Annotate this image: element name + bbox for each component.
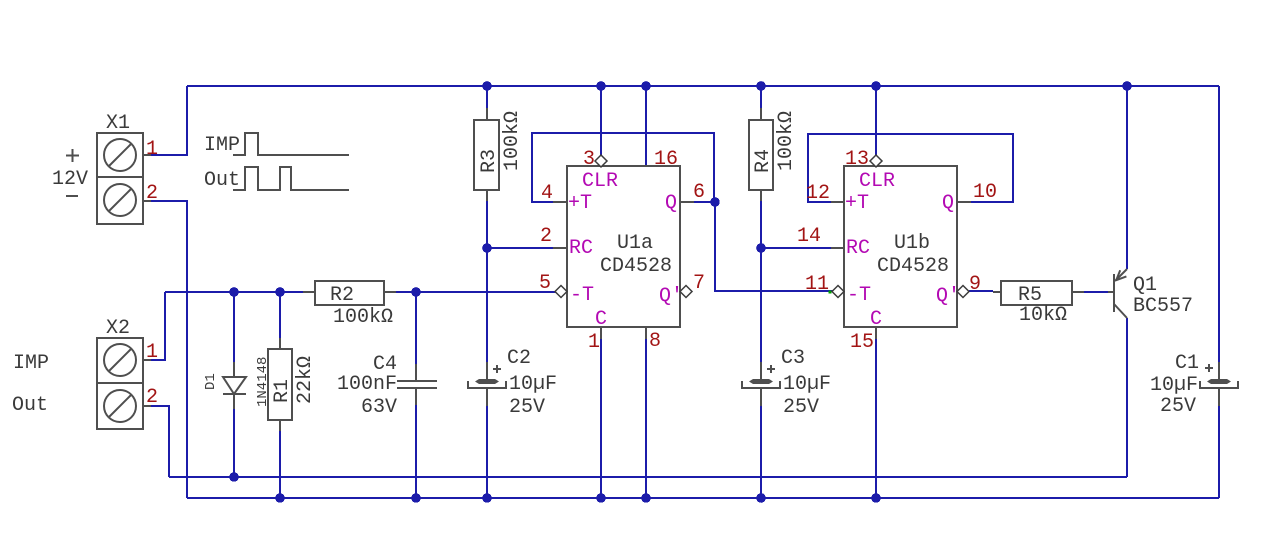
wire U1a pin8 to ground rail — [645, 339, 647, 498]
svg-text:R4: R4 — [752, 149, 775, 173]
svg-text:15: 15 — [850, 331, 874, 354]
wire X1 pin1 to +12V rail riser — [150, 86, 187, 155]
svg-text:C2: C2 — [507, 347, 531, 370]
svg-text:2: 2 — [146, 386, 158, 409]
wire RC node to U1a RC pin2 — [487, 247, 553, 249]
wire U1b +T pin12 feedback loop to Q pin10 — [808, 134, 1013, 202]
wire +12V rail to U1a pin16 — [645, 86, 647, 166]
junction Out rail / D1 — [229, 472, 239, 482]
pin 11 diamond — [832, 286, 844, 298]
junction ground rail / U1b pin15 — [871, 493, 881, 503]
transistor Q1 BC557 PNP — [1108, 269, 1193, 318]
junction ground rail / C3 — [756, 493, 766, 503]
resistor R3 100k — [474, 108, 524, 201]
svg-text:10µF: 10µF — [509, 373, 557, 396]
svg-text:CD4528: CD4528 — [600, 255, 672, 278]
terminal block X2 — [12, 317, 158, 429]
svg-text:100kΩ: 100kΩ — [501, 111, 524, 171]
svg-text:-T: -T — [847, 284, 871, 307]
wire R3 bottom to RC node — [486, 201, 488, 248]
svg-text:25V: 25V — [783, 396, 819, 419]
wire Out rail riser to Q1 collector — [1126, 318, 1128, 477]
svg-text:Q': Q' — [659, 285, 683, 308]
pin 11 connection mark — [829, 291, 832, 294]
wire R1 top to IMP row — [279, 292, 281, 338]
terminal block X1 — [52, 112, 158, 224]
wire C4 bottom to ground rail — [415, 405, 417, 498]
wire U1a Q pin6 to junction — [694, 201, 715, 203]
svg-text:11: 11 — [805, 273, 829, 296]
wire +12V rail down to Q1 emitter — [1126, 86, 1128, 269]
resistor R5 10k — [993, 281, 1084, 327]
junction ground rail / C2 — [482, 493, 492, 503]
junction +12V rail / U1b pin13 — [871, 81, 881, 91]
junction ground rail / U1a pin1 — [596, 493, 606, 503]
svg-text:2: 2 — [146, 182, 158, 205]
capacitor C2 10uF electrolytic — [468, 347, 557, 419]
svg-text:+T: +T — [845, 192, 869, 215]
svg-text:16: 16 — [654, 148, 678, 171]
svg-text:1: 1 — [146, 138, 158, 161]
wire Q junction down and right to U1b -T pin11 — [715, 202, 833, 291]
wire +12V rail to R3 top — [486, 86, 488, 108]
junction +12V rail / Q1 emitter — [1122, 81, 1132, 91]
resistor R4 100k — [749, 108, 798, 201]
svg-text:U1a: U1a — [617, 232, 653, 255]
wire +12V top rail — [187, 85, 1219, 87]
svg-text:IMP: IMP — [204, 134, 240, 157]
wire R2 right to U1a -T pin5 — [396, 291, 556, 293]
junction IMP row / C4 — [411, 287, 421, 297]
wire D1 top to IMP row — [233, 292, 235, 362]
junction IMP row / R1 — [275, 287, 285, 297]
wire RC node down to C3 top — [760, 248, 762, 362]
junction RC node U1a / C2 — [482, 243, 492, 253]
junction ground rail / R1 — [275, 493, 285, 503]
svg-text:4: 4 — [541, 182, 553, 205]
svg-text:IMP: IMP — [13, 352, 49, 375]
svg-text:10µF: 10µF — [783, 373, 831, 396]
svg-text:U1b: U1b — [894, 232, 930, 255]
wire IMP row from X2 riser to R2 — [165, 291, 303, 293]
svg-text:3: 3 — [583, 148, 595, 171]
wire +12V rail drop to C1 top — [1218, 86, 1220, 362]
svg-text:Out: Out — [204, 169, 240, 192]
wire U1a pin1 C to ground rail — [600, 339, 602, 498]
wire U1a +T pin4 feedback loop to Q pin6 — [532, 133, 714, 202]
resistor R2 100k — [303, 281, 396, 329]
svg-text:R3: R3 — [478, 149, 501, 173]
svg-text:10: 10 — [973, 181, 997, 204]
wire C3 bottom to ground rail — [760, 406, 762, 498]
junction ground rail / C4 — [411, 493, 421, 503]
svg-text:CLR: CLR — [859, 170, 895, 193]
waveform IMP — [204, 133, 349, 157]
svg-text:RC: RC — [846, 237, 870, 260]
svg-text:C3: C3 — [781, 347, 805, 370]
capacitor C1 10uF electrolytic — [1150, 352, 1238, 418]
svg-text:CLR: CLR — [582, 170, 618, 193]
capacitor C3 10uF electrolytic — [742, 347, 831, 419]
svg-text:Q: Q — [665, 192, 677, 215]
svg-text:RC: RC — [569, 237, 593, 260]
svg-text:X2: X2 — [106, 317, 130, 340]
svg-text:BC557: BC557 — [1133, 295, 1193, 318]
junction RC node U1b / C3 — [756, 243, 766, 253]
wire U1b pin15 C to ground rail — [875, 339, 877, 498]
svg-text:100kΩ: 100kΩ — [333, 306, 393, 329]
op-amp U1b CD4528 monostable — [797, 148, 997, 354]
label - — [66, 195, 78, 197]
emitter with arrow — [1115, 269, 1127, 281]
wire RC node down to C2 top — [486, 248, 488, 362]
waveform Out — [204, 167, 349, 192]
svg-text:X1: X1 — [106, 112, 130, 135]
svg-text:12V: 12V — [52, 168, 88, 191]
svg-text:100kΩ: 100kΩ — [775, 111, 798, 171]
wire X1 pin2 down to ground rail — [150, 201, 187, 498]
svg-text:CD4528: CD4528 — [877, 255, 949, 278]
svg-text:25V: 25V — [509, 396, 545, 419]
wire +12V rail to U1b pin13 CLR — [875, 86, 877, 155]
svg-text:R1: R1 — [271, 379, 294, 403]
svg-text:25V: 25V — [1160, 395, 1196, 418]
svg-text:R2: R2 — [330, 284, 354, 307]
svg-text:10kΩ: 10kΩ — [1019, 304, 1067, 327]
pin 3 diamond — [595, 155, 607, 167]
junction +12V rail / R4 — [756, 81, 766, 91]
wire R4 bottom to RC node of U1b — [760, 201, 762, 248]
svg-text:C: C — [870, 308, 882, 331]
svg-text:12: 12 — [806, 182, 830, 205]
wire R1 bottom to ground rail — [279, 431, 281, 498]
svg-text:C1: C1 — [1175, 352, 1199, 375]
svg-text:Q: Q — [942, 192, 954, 215]
label + — [1205, 367, 1213, 369]
svg-text:63V: 63V — [361, 396, 397, 419]
svg-text:Q': Q' — [936, 285, 960, 308]
svg-text:7: 7 — [693, 272, 705, 295]
wire RC node to U1b RC pin14 — [761, 247, 831, 249]
svg-text:2: 2 — [540, 225, 552, 248]
svg-text:100nF: 100nF — [337, 373, 397, 396]
svg-text:14: 14 — [797, 225, 821, 248]
svg-text:5: 5 — [539, 272, 551, 295]
junction U1a Q pin6 node — [710, 197, 720, 207]
wire U1b Q' pin9 to R5 left — [969, 290, 993, 292]
svg-text:-T: -T — [570, 284, 594, 307]
svg-text:22kΩ: 22kΩ — [294, 356, 317, 404]
pin 7 diamond — [680, 286, 692, 298]
junction +12V rail / U1a pin16 — [641, 81, 651, 91]
svg-text:+T: +T — [568, 192, 592, 215]
wire D1 bottom to Out rail — [233, 409, 235, 477]
wire C2 bottom to ground rail — [486, 406, 488, 498]
svg-text:6: 6 — [693, 181, 705, 204]
wire +12V rail to U1a pin3 CLR — [600, 86, 602, 155]
svg-text:1: 1 — [588, 331, 600, 354]
svg-text:8: 8 — [649, 330, 661, 353]
junction ground rail / U1a pin8 — [641, 493, 651, 503]
diode D1 1N4148 — [203, 357, 271, 409]
junction +12V rail / U1a pin3 — [596, 81, 606, 91]
pin 9 diamond — [957, 286, 969, 298]
wire Out rail — [169, 476, 1127, 478]
label + — [493, 368, 501, 370]
resistor R1 22k — [268, 338, 317, 431]
svg-text:D1: D1 — [203, 373, 219, 390]
svg-text:10µF: 10µF — [1150, 374, 1198, 397]
junction +12V rail / R3 — [482, 81, 492, 91]
svg-text:Out: Out — [12, 394, 48, 417]
junction IMP row / D1 — [229, 287, 239, 297]
wire +12V rail to R4 top — [760, 86, 762, 108]
label + — [66, 155, 79, 157]
wire C4 top to IMP row — [415, 292, 417, 364]
label + — [767, 368, 775, 370]
wire X2 pin1 to IMP row — [150, 292, 165, 360]
svg-text:Q1: Q1 — [1133, 274, 1157, 297]
op-amp U1a CD4528 monostable — [539, 148, 705, 354]
wire ground rail — [187, 497, 1219, 499]
svg-text:C: C — [595, 308, 607, 331]
pin 5 diamond — [555, 286, 567, 298]
collector — [1114, 304, 1127, 318]
wire C1 bottom to ground rail — [1218, 406, 1220, 498]
svg-text:1: 1 — [146, 341, 158, 364]
svg-text:9: 9 — [969, 273, 981, 296]
wire X2 pin2 to Out rail — [150, 406, 169, 477]
svg-text:13: 13 — [845, 148, 869, 171]
capacitor C4 100nF — [337, 353, 437, 419]
wire R5 right to Q1 base — [1084, 291, 1108, 293]
pin 13 diamond — [870, 155, 882, 167]
